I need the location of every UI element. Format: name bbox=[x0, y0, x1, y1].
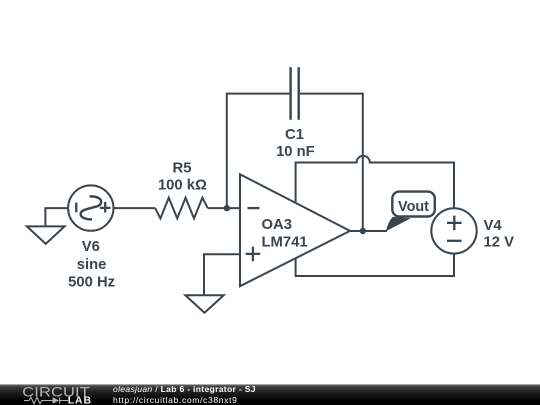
svg-text:OA3: OA3 bbox=[262, 217, 292, 233]
wire capacitor right plate to output node bbox=[300, 94, 363, 231]
svg-text:100 kΩ: 100 kΩ bbox=[158, 177, 207, 193]
Vout flag box bbox=[392, 192, 435, 217]
svg-text:sine: sine bbox=[77, 257, 107, 273]
ground near op-amp bbox=[185, 295, 223, 313]
wire op-amp V+ pin to V4 top (with hop over feedback wire) bbox=[296, 156, 454, 208]
svg-text:oleasjuan / Lab 6 - integrator: oleasjuan / Lab 6 - integrator - SJ bbox=[113, 384, 256, 394]
V6 minus terminal sign bbox=[75, 203, 77, 213]
wire V6 to R5 bbox=[114, 207, 156, 209]
wire R5 to op-amp inverting input bbox=[208, 207, 240, 209]
node at op-amp output bbox=[360, 228, 366, 234]
wire non-inverting input to ground bbox=[204, 254, 240, 295]
V6 circle body bbox=[68, 185, 113, 230]
capacitor C1 plates bbox=[291, 67, 299, 120]
svg-text:Vout: Vout bbox=[398, 199, 429, 215]
svg-text:LAB: LAB bbox=[68, 396, 92, 405]
wire op-amp V- pin to V4 bottom bbox=[296, 254, 454, 276]
svg-text:http://circuitlab.com/c38nxt9: http://circuitlab.com/c38nxt9 bbox=[113, 395, 238, 405]
op-amp OA3 triangle bbox=[240, 174, 350, 286]
ground near V6 bbox=[27, 226, 65, 244]
svg-text:R5: R5 bbox=[173, 160, 192, 176]
svg-text:V4: V4 bbox=[484, 218, 503, 234]
Vout flag tail bbox=[386, 217, 411, 231]
wire feedback branch: node up, across capacitor, down to output bbox=[227, 94, 290, 209]
voltage source V4 bbox=[431, 208, 476, 253]
V4 circle body bbox=[431, 208, 476, 253]
resistor R5 bbox=[155, 198, 208, 219]
V4 minus sign bbox=[447, 240, 462, 242]
node at inverting input bbox=[224, 205, 230, 211]
V6 sine waveform symbol bbox=[81, 196, 102, 219]
svg-text:12 V: 12 V bbox=[484, 234, 515, 250]
svg-text:10 nF: 10 nF bbox=[276, 144, 315, 160]
op-amp inverting input minus sign bbox=[248, 207, 260, 209]
V4 plus sign bbox=[447, 216, 462, 231]
svg-text:LM741: LM741 bbox=[262, 234, 308, 250]
CircuitLab logo schematic squiggle (resistor + diode) bbox=[24, 397, 68, 403]
wire op-amp output bbox=[350, 230, 387, 232]
CircuitLab logo diode arrow bbox=[53, 397, 60, 403]
svg-text:500 Hz: 500 Hz bbox=[68, 274, 115, 290]
svg-text:C1: C1 bbox=[285, 127, 304, 143]
wire V6 left terminal to ground bbox=[45, 208, 68, 226]
svg-text:V6: V6 bbox=[82, 239, 100, 255]
op-amp non-inverting input plus sign bbox=[246, 247, 261, 262]
V6 plus terminal sign bbox=[100, 202, 111, 213]
voltage source V6 bbox=[68, 185, 113, 230]
